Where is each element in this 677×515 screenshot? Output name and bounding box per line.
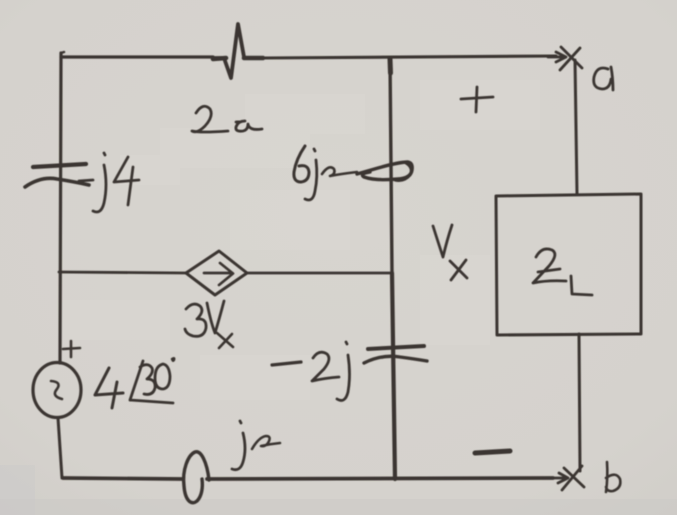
value label "-2j" for C2 [272, 362, 301, 365]
value label "-j4" for C1 [79, 180, 93, 181]
polarity - sign of Vx (near node b) [475, 451, 510, 453]
wire: right vertical lower (ZL to b) [579, 334, 580, 471]
capacitor C2 (-2j) plates [368, 346, 424, 349]
inductor L2 (j) coil loop on bottom wire [184, 452, 209, 503]
node a label [594, 67, 613, 90]
wire: top, right segment to terminal a [263, 56, 556, 58]
value label "ZL" inside box [533, 249, 566, 283]
wire: middle horizontal (dep source branch) [59, 272, 186, 273]
impedance ZL (load box) [496, 194, 641, 335]
corner hooks top-left [61, 52, 64, 53]
wire: right vertical upper (a to ZL) [575, 60, 577, 194]
wire: left vertical [60, 53, 61, 363]
node a terminal (arrow + x mark) [548, 47, 582, 70]
wire: bottom [63, 478, 553, 479]
voltage label "Vx" (middle right) [433, 225, 452, 257]
wire: top, left segment [61, 55, 213, 58]
resistor R1 (2 ohm, zigzag spike) [213, 24, 244, 78]
wire: middle vertical [390, 58, 392, 273]
value label "3Vx" for D1 [185, 304, 206, 336]
node b terminal (arrow + x mark) [553, 466, 584, 490]
polarity + sign of Vx (near node a) [461, 87, 493, 112]
node b label [606, 462, 620, 492]
value label "6j" for L1 [294, 146, 309, 182]
value label "2 ohm" for R1 [192, 106, 228, 132]
polarity + sign at source V1 [63, 341, 80, 357]
inductor L1 (6j) coil loop on middle vertical wire [357, 162, 412, 180]
capacitor C1 (-j4) plates [33, 164, 86, 167]
value label "4 angle 30 deg" for V1 [95, 368, 123, 408]
value label "j" for L2 [232, 421, 245, 470]
voltage source V1 (4 angle 30 deg, circle with s) [33, 363, 81, 418]
dependent current source D1 (3Vx, diamond with arrow) [186, 251, 247, 295]
